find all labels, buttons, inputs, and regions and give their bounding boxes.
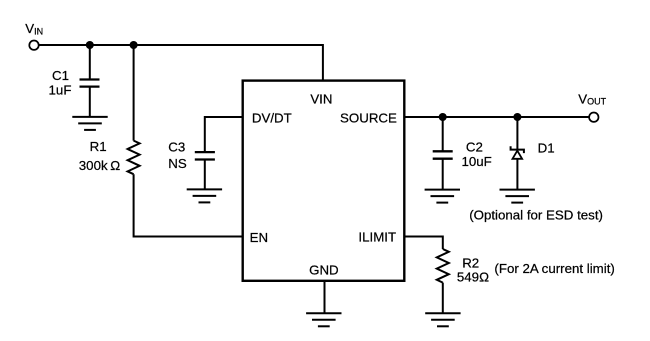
svg-text:EN: EN xyxy=(250,230,268,245)
wire C1 branch xyxy=(89,45,91,80)
capacitor C1 xyxy=(80,80,100,87)
wire C3 to ground xyxy=(204,160,206,190)
wire GND pin xyxy=(324,281,326,314)
svg-text:SOURCE: SOURCE xyxy=(340,111,397,126)
wire R1 top xyxy=(133,45,135,141)
wire input bus xyxy=(39,44,323,46)
svg-text:C3: C3 xyxy=(168,139,185,154)
svg-text:(Optional for ESD test): (Optional for ESD test) xyxy=(469,208,603,223)
op-amp U1 (load switch IC body) xyxy=(243,81,405,281)
capacitor C2 xyxy=(433,151,453,158)
wire C1 to ground xyxy=(89,87,91,117)
wire ILIMIT to R2 xyxy=(404,237,443,250)
resistor R1 xyxy=(128,141,140,175)
svg-text:DV/DT: DV/DT xyxy=(252,111,292,126)
svg-text:10uF: 10uF xyxy=(462,154,492,169)
wire C2 branch xyxy=(442,117,444,151)
wire C2 to ground xyxy=(442,159,444,190)
wire D1 to ground xyxy=(516,159,518,190)
svg-text:GND: GND xyxy=(309,263,339,278)
ground C2 xyxy=(425,190,460,203)
wire D1 branch xyxy=(516,117,518,150)
svg-text:VOUT: VOUT xyxy=(578,91,606,106)
wire DV/DT to C3 xyxy=(205,117,243,152)
ground D1 xyxy=(500,190,535,203)
ground R2 xyxy=(425,313,460,326)
junction C1 tap xyxy=(86,41,94,49)
svg-text:300k Ω: 300k Ω xyxy=(79,158,120,173)
terminal VOUT xyxy=(589,113,598,122)
svg-text:1uF: 1uF xyxy=(49,82,72,97)
ground GND xyxy=(306,313,341,326)
svg-text:549Ω: 549Ω xyxy=(457,270,489,285)
junction C2 tap xyxy=(439,113,447,121)
svg-text:C2: C2 xyxy=(466,139,483,154)
svg-text:C1: C1 xyxy=(52,68,69,83)
wire SOURCE bus xyxy=(404,116,589,118)
wire VIN drop xyxy=(322,44,324,81)
wire R2 to ground xyxy=(442,283,444,314)
junction R1 tap xyxy=(130,41,138,49)
terminal VIN xyxy=(29,41,38,50)
ground C3 xyxy=(187,189,222,202)
svg-text:R1: R1 xyxy=(90,139,107,154)
wire R1 to EN xyxy=(134,174,243,236)
svg-text:ILIMIT: ILIMIT xyxy=(358,230,396,245)
junction D1 tap xyxy=(513,113,521,121)
svg-text:(For 2A current limit): (For 2A current limit) xyxy=(494,261,614,276)
svg-text:VIN: VIN xyxy=(310,91,332,106)
svg-text:D1: D1 xyxy=(538,140,555,155)
svg-text:NS: NS xyxy=(168,156,187,171)
capacitor C3 xyxy=(195,152,215,159)
ground C1 xyxy=(72,117,107,130)
diode D1 zener xyxy=(511,146,524,159)
svg-text:VIN: VIN xyxy=(25,21,43,37)
svg-text:R2: R2 xyxy=(462,255,479,270)
resistor R2 xyxy=(437,249,449,283)
